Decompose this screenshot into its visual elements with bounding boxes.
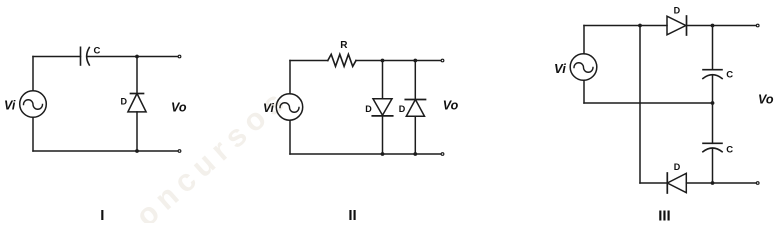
output terminal bottom (circuit I) — [178, 150, 181, 153]
svg-text:D: D — [674, 5, 681, 15]
junction node resistor-D1 (circuit II) — [381, 59, 385, 63]
AC source Vi (circuit III) — [570, 54, 597, 81]
wire: left rail bottom segment (circuit II) — [289, 120, 291, 154]
wire: diode D1 bottom lead (circuit II) — [382, 116, 384, 154]
svg-text:Vo: Vo — [443, 99, 459, 113]
wire: left rail top segment (circuit I) — [32, 57, 34, 91]
wire: diode bottom lead (circuit I) — [136, 112, 138, 151]
svg-text:Vi: Vi — [4, 99, 16, 113]
svg-text:I: I — [100, 207, 104, 223]
wire: diode D2 top lead (circuit II) — [414, 61, 416, 100]
svg-text:C: C — [726, 144, 733, 155]
capacitor C lower (circuit III) — [703, 143, 722, 152]
wire: top wire source to node (circuit III) — [584, 25, 667, 27]
AC source Vi (circuit I) — [20, 91, 47, 118]
junction node bottom-right (circuit III) — [711, 181, 715, 185]
svg-text:Vi: Vi — [263, 101, 275, 115]
junction node top-left crossover (circuit III) — [638, 24, 642, 28]
junction node D1 bottom (circuit II) — [381, 152, 385, 156]
diode D bottom, cathode-left (circuit III) — [667, 173, 686, 193]
svg-text:C: C — [94, 45, 101, 56]
diode D (circuit I) — [128, 94, 146, 112]
svg-text:R: R — [340, 40, 348, 51]
wire: right rail between cap and mid node (circuit III) — [712, 76, 714, 104]
wire: right rail top segment (circuit III) — [712, 26, 714, 70]
svg-text:Vo: Vo — [758, 93, 774, 107]
svg-text:Vo: Vo — [171, 101, 187, 115]
wire: left rail top segment (circuit II) — [289, 61, 291, 94]
wire: bottom wire (circuit I) — [33, 150, 137, 152]
junction node middle-right (circuit III) — [711, 101, 715, 105]
wire: resistor to nodes to terminal (circuit II) — [356, 60, 441, 62]
svg-text:D: D — [399, 104, 406, 114]
wire: crossover vertical from top node to bottom (circuit III) — [639, 26, 641, 184]
svg-text:D: D — [121, 96, 128, 106]
junction node at diode bottom (circuit I) — [135, 149, 139, 153]
diode D2 cathode-up (circuit II) — [405, 100, 425, 117]
watermark "concursos" — [111, 80, 295, 240]
wire: right rail bottom segment (circuit III) — [712, 149, 714, 183]
svg-text:D: D — [365, 104, 372, 114]
diode D top, cathode-right (circuit III) — [667, 16, 687, 35]
output terminal top (circuit II) — [441, 59, 444, 62]
wire: top wire from capacitor to node (circuit I) — [87, 56, 137, 58]
wire: top wire source to resistor (circuit II) — [290, 60, 328, 62]
svg-text:II: II — [348, 207, 356, 223]
wire: diode to node to terminal (circuit III top) — [687, 25, 757, 27]
wire: left rail bottom segment (circuit I) — [32, 117, 34, 151]
wire: node to output terminal top (circuit I) — [137, 56, 178, 58]
wire: bottom diode to node to terminal (circuit III) — [686, 182, 756, 184]
output terminal top (circuit I) — [178, 55, 181, 58]
svg-text:D: D — [674, 162, 681, 172]
svg-text:C: C — [726, 69, 733, 80]
junction node D1-D2 top (circuit II) — [413, 59, 417, 63]
wire: diode top lead (circuit I) — [136, 57, 138, 94]
svg-text:III: III — [658, 208, 671, 224]
wire: right rail mid node to lower cap (circuit III) — [712, 103, 714, 143]
wire: middle wire source to mid node (circuit III) — [584, 102, 713, 104]
wire: left rail top segment (circuit III) — [583, 26, 585, 54]
output terminal bottom (circuit II) — [441, 153, 444, 156]
junction node top-right (circuit III) — [711, 24, 715, 28]
wire: bottom wire (circuit II) — [290, 153, 441, 155]
output terminal top (circuit III) — [756, 24, 759, 27]
wire: bottom node to output terminal (circuit I) — [137, 150, 178, 152]
junction node D2 bottom (circuit II) — [413, 152, 417, 156]
diode D1 cathode-down (circuit II) — [372, 99, 392, 116]
wire: diode D1 top lead (circuit II) — [382, 61, 384, 99]
wire: diode D2 bottom lead (circuit II) — [414, 116, 416, 154]
AC source Vi (circuit II) — [276, 94, 302, 120]
resistor R (circuit II) — [328, 54, 356, 66]
capacitor C upper (circuit III) — [703, 70, 722, 79]
wire: bottom wire to diode cathode (circuit III) — [640, 182, 667, 184]
wire: top wire from source to capacitor (circuit I) — [33, 56, 81, 58]
junction node at diode top (circuit I) — [135, 55, 139, 59]
output terminal bottom (circuit III) — [756, 182, 759, 185]
capacitor C (circuit I) — [81, 47, 90, 65]
wire: left rail bottom segment (circuit III) — [583, 80, 585, 103]
svg-text:Vi: Vi — [554, 61, 566, 76]
